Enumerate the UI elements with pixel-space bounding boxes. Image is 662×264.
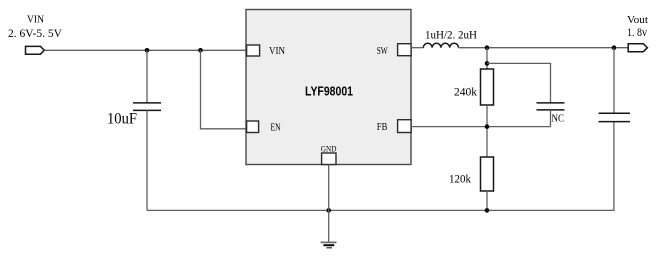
junction R2 ground node [485,208,490,213]
svg-text:1uH/2. 2uH: 1uH/2. 2uH [425,30,477,42]
wire SW to inductor [411,47,423,49]
junction R1 tap [485,45,490,50]
inductor L1 [423,43,458,47]
resistor R2 120k [481,157,494,191]
svg-text:GND: GND [321,145,337,154]
pin FB of U1 [377,120,411,133]
capacitor C1 10uF [133,103,161,111]
capacitor C3 output [599,113,631,121]
connector J1 VIN port [26,46,45,54]
wire FB rail [411,126,551,128]
node VIN label [8,15,63,41]
svg-text:SW: SW [377,46,388,57]
svg-text:FB: FB [377,122,388,133]
svg-text:1. 8v: 1. 8v [627,27,647,39]
junction FB node [485,124,490,129]
wire C3 upper lead [613,48,615,114]
svg-text:Vout: Vout [627,15,648,26]
wire EN branch [201,50,248,129]
node Vout label [627,15,648,39]
wire R2 lower lead [486,191,488,210]
junction GND drop [326,208,331,213]
capacitor C2 NC [537,103,565,110]
junction EN tap [198,48,203,53]
wire SW tap down [486,48,488,69]
resistor R1 240k [481,69,494,105]
pin SW of U1 [377,44,411,58]
wire GND pin drop [328,165,330,211]
wire VIN rail [44,49,246,51]
svg-text:240k: 240k [454,86,477,98]
svg-text:EN: EN [271,123,281,134]
pin GND of U1 [321,145,337,165]
svg-text:LYF98001: LYF98001 [305,84,353,99]
wire R1 lower lead [486,105,488,157]
svg-text:10uF: 10uF [107,111,137,128]
wire C1 upper lead [146,50,148,102]
junction NC branch node [485,61,490,66]
wire C1 lower lead [146,110,148,210]
IC U1 LYF98001 body [246,10,411,165]
svg-text:NC: NC [552,113,565,125]
pin EN of U1 [247,121,281,134]
wire ground bus [147,122,614,211]
junction C1 tap [145,48,150,53]
junction C3 tap [612,45,617,50]
connector J2 Vout port [628,44,647,52]
ground symbol [321,242,337,247]
pin VIN of U1 [247,45,285,57]
svg-text:VIN: VIN [269,46,285,57]
wire C2 lower lead [550,110,552,127]
wire SW rail to output [459,47,629,49]
wire NC branch [487,63,551,102]
svg-text:VIN: VIN [27,15,44,26]
svg-text:2. 6V-5. 5V: 2. 6V-5. 5V [8,28,63,40]
wire ground stub [328,210,330,242]
svg-text:120k: 120k [449,173,471,185]
